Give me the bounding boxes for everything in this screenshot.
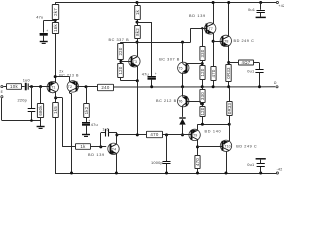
node zobel on output line: [258, 85, 261, 88]
node T4 base junction: [99, 145, 102, 148]
wire +42V top rail: [55, 2, 276, 4]
wire 2k7 column: [55, 3, 57, 5]
svg-text:BC 307 B: BC 307 B: [159, 57, 180, 61]
ground rail decoupling top: [256, 16, 266, 18]
svg-text:0R33: 0R33: [227, 102, 232, 114]
wire T7 emitter column: [213, 33, 215, 66]
wire: [22, 86, 25, 88]
resistor 1k2 (feedback shunt): [84, 104, 90, 118]
svg-text:16k: 16k: [53, 24, 58, 32]
node bias junction / T5 base: [202, 60, 204, 66]
svg-text:+42: +42: [278, 4, 284, 8]
svg-text:0u1: 0u1: [248, 7, 255, 12]
svg-text:T9: T9: [193, 133, 197, 137]
resistor 470 (T7 emitter): [211, 67, 216, 81]
svg-text:47u: 47u: [91, 122, 98, 127]
svg-text:+: +: [88, 119, 90, 123]
svg-text:BD 140: BD 140: [205, 129, 222, 133]
svg-text:1k2: 1k2: [84, 106, 89, 114]
svg-text:47u: 47u: [36, 14, 43, 19]
wire T10 emitter: [229, 124, 231, 141]
wire: [137, 3, 139, 6]
node 1000p junction: [165, 133, 168, 136]
wire T8 emitter: [228, 46, 230, 65]
resistor 16k: [52, 23, 58, 34]
node T2 collector at rail: [70, 172, 73, 175]
transistor T1: [47, 81, 58, 92]
wire input ground bus: [1, 98, 3, 120]
svg-text:240: 240: [101, 85, 109, 90]
wire T4 base: [91, 146, 107, 148]
svg-text:680k: 680k: [38, 105, 43, 116]
wire T5 collector up to T7 base: [182, 42, 184, 63]
svg-text:220p: 220p: [18, 98, 27, 103]
node X junction: [54, 19, 57, 22]
wire T8 base: [213, 41, 222, 43]
wire bias stack to output line: [202, 80, 204, 87]
resistor 2k7: [52, 5, 58, 20]
resistor 240 (feedback): [98, 84, 114, 90]
wire T6 emitter to output line: [182, 87, 184, 97]
diode D1: [179, 117, 185, 119]
svg-text:BD 249 C: BD 249 C: [234, 39, 255, 43]
svg-text:T1: T1: [51, 86, 55, 90]
resistor 0R33 (bottom emitter): [227, 102, 232, 116]
svg-text:1k5: 1k5: [53, 106, 58, 114]
node bias stack on output line: [201, 85, 204, 88]
svg-text:330: 330: [200, 92, 205, 100]
wire node B to T5 collector: [121, 42, 191, 44]
node T5 emitter on output line: [181, 85, 184, 88]
ground rail decoupling bottom: [256, 158, 266, 160]
capacitor 0u1 (- rail decoupling): [259, 172, 262, 175]
resistor 120 (lower bias lower): [200, 107, 205, 117]
wire T6 collector to diode: [182, 106, 184, 117]
wire T10 collector to rail: [226, 151, 228, 173]
node T10 base junction: [196, 145, 199, 148]
wire output line: [114, 86, 276, 88]
svg-text:470: 470: [211, 69, 216, 77]
wire T6 base: [187, 101, 201, 103]
wire 120 bottom to T3 emitter node: [120, 77, 122, 81]
node bootstrap on output line: [150, 85, 153, 88]
svg-text:220: 220: [118, 47, 123, 55]
wire 0R33 to output line: [229, 87, 231, 101]
wire zobel: [229, 62, 238, 64]
ground feedback leg: [82, 134, 90, 136]
wire T5 base: [187, 63, 203, 65]
resistor 120 (bias lower): [200, 66, 205, 80]
resistor 330 (lower bias upper): [200, 90, 205, 103]
svg-text:120: 120: [200, 107, 205, 115]
wire T9 collector down: [197, 140, 199, 156]
wire 4R7 to 0u1: [254, 62, 260, 64]
wire input: [3, 86, 7, 88]
wire T7 base column to bias stack: [201, 27, 203, 29]
svg-text:BC 212 B: BC 212 B: [156, 99, 177, 103]
svg-text:BC 337 B: BC 337 B: [109, 38, 130, 42]
node input junction 220p: [30, 85, 33, 88]
resistor 0R33 (top emitter): [226, 65, 231, 82]
terminal input ground: [1, 96, 3, 98]
wire T7 collector to rail: [213, 3, 215, 24]
node A bootstrap junction: [137, 20, 139, 26]
node lower bias junction / T6 base: [202, 102, 204, 107]
wire T1 collector to T4 base run: [56, 97, 63, 99]
terminal output: [276, 86, 278, 88]
wire 470 to rail: [197, 168, 199, 173]
svg-text:+: +: [46, 29, 48, 33]
svg-text:0R33: 0R33: [226, 67, 231, 79]
wire T8 collector to rail: [228, 3, 230, 37]
node B junction: [137, 39, 139, 56]
node T8 emitter / zobel: [227, 61, 230, 64]
terminal input: [1, 86, 3, 88]
wire T2 collector to bottom rail: [69, 91, 71, 93]
terminal -42: [276, 172, 278, 174]
node T1 collector: [54, 96, 57, 99]
capacitor 47u (feedback): [86, 117, 88, 122]
node tail junction: [54, 75, 57, 78]
svg-text:470: 470: [195, 158, 200, 166]
svg-text:0u1: 0u1: [247, 69, 254, 74]
wire 470 to output line: [213, 81, 215, 87]
svg-text:1u0: 1u0: [23, 77, 31, 82]
svg-text:120: 120: [118, 66, 123, 74]
svg-text:T8: T8: [224, 39, 228, 43]
resistor 470 (T9 collector): [195, 156, 200, 169]
wire bootstrap to 47u: [137, 22, 152, 24]
node feedback junction: [85, 85, 88, 88]
transistor T3: [129, 56, 140, 67]
svg-text:BC 213 B: BC 213 B: [59, 73, 79, 77]
transistor T2: [67, 81, 78, 92]
svg-text:BD 139: BD 139: [88, 153, 105, 157]
transistor T8 output: [220, 35, 231, 46]
wire centre column down (crosses output line): [137, 81, 139, 135]
wire T2 base / feedback node: [76, 86, 97, 88]
wire diff pair tail: [55, 76, 69, 78]
node input junction 680k: [39, 85, 42, 88]
resistor 120 (T3 base lower): [118, 64, 124, 78]
wire to 47u decoupling cap: [44, 20, 56, 22]
svg-text:T7: T7: [209, 27, 213, 31]
resistor 10k: [7, 84, 22, 90]
svg-text:0u1: 0u1: [247, 162, 254, 167]
wire lower stack to T9 emitter: [202, 117, 204, 125]
svg-text:1k: 1k: [80, 144, 86, 149]
node T8 base junction: [212, 40, 215, 43]
wire 1k5 to bottom rail: [55, 117, 57, 173]
resistor 8k2 (bootstrap lower): [135, 26, 141, 39]
svg-text:330: 330: [200, 49, 205, 57]
wire lower bias stack top: [202, 87, 204, 90]
wire 0R33 to output line: [228, 82, 230, 87]
resistor 1k5 (T1 load): [53, 103, 59, 118]
svg-text:10k: 10k: [10, 84, 18, 89]
node stack 220/120 top: [120, 42, 122, 43]
resistor 220 (T3 base upper): [118, 44, 124, 60]
capacitor 1000p: [166, 135, 168, 161]
wire T3 bottom node: [137, 66, 139, 81]
transistor T7 driver: [205, 23, 216, 34]
resistor 1k (bootstrap upper): [135, 6, 141, 20]
svg-text:+: +: [155, 72, 157, 76]
terminal +42: [276, 1, 278, 3]
node T4 collector: [115, 133, 118, 136]
resistor 470 (horizontal): [147, 131, 163, 137]
svg-text:T6: T6: [178, 100, 182, 104]
resistor 680k: [40, 87, 42, 103]
svg-text:Ω: Ω: [274, 81, 277, 85]
wire input node: [29, 86, 49, 88]
svg-text:4Ω7: 4Ω7: [241, 60, 250, 65]
svg-text:47u: 47u: [142, 71, 149, 76]
capacitor 0u1 (+ rail decoupling): [259, 1, 262, 4]
svg-text:470: 470: [150, 132, 158, 137]
node T3 base junction: [120, 59, 122, 64]
svg-text:BD 139: BD 139: [189, 14, 206, 18]
resistor 4R7: [239, 60, 254, 65]
wire T3 base: [121, 61, 131, 63]
svg-text:1k: 1k: [135, 9, 140, 15]
svg-text:T2: T2: [68, 85, 72, 89]
svg-text:BD 249 C: BD 249 C: [236, 145, 257, 149]
transistor T9 driver: [189, 129, 200, 140]
transistor T6: [178, 96, 189, 107]
node centre column join: [136, 133, 139, 136]
node T5 collector: [181, 41, 184, 44]
node 1k top at rail: [136, 1, 139, 4]
svg-text:T4: T4: [112, 147, 116, 151]
wire -42V bottom rail: [55, 173, 276, 175]
ground: [40, 41, 48, 43]
resistor 330 (bias upper): [200, 47, 205, 61]
transistor T5: [178, 62, 189, 73]
svg-text:120: 120: [200, 68, 205, 76]
transistor T4: [108, 143, 119, 154]
wire T5 emitter to output line: [182, 73, 184, 87]
svg-text:8k2: 8k2: [135, 28, 140, 36]
svg-text:2k7: 2k7: [53, 8, 58, 16]
svg-text:T10: T10: [224, 144, 230, 148]
wire T1 collector: [55, 92, 57, 103]
transistor T10 output: [220, 140, 231, 151]
wire feedback shunt leg: [86, 87, 88, 104]
wire T4 emitter to rail: [116, 154, 118, 173]
wire diode to T9 base line: [182, 125, 184, 135]
wire T4 collector line: [117, 134, 147, 136]
wire T10 base: [198, 146, 222, 148]
wire 470 to T9 base: [162, 134, 191, 136]
svg-text:T3: T3: [133, 60, 137, 64]
ground input: [40, 121, 42, 127]
svg-text:-42: -42: [277, 168, 283, 172]
svg-text:1000p: 1000p: [151, 160, 163, 165]
resistor 1k (T4 base): [76, 144, 91, 150]
svg-text:T5: T5: [178, 66, 182, 70]
